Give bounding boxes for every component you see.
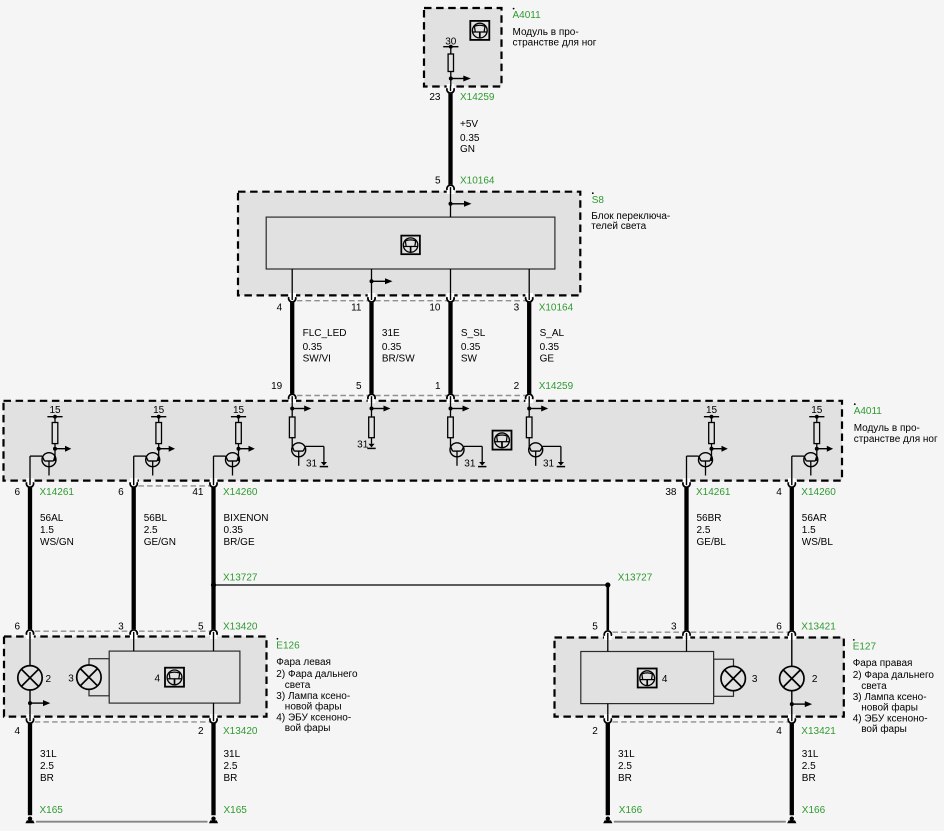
svg-text:15: 15 (706, 405, 718, 416)
svg-text:2) Фара дальнего: 2) Фара дальнего (276, 669, 358, 680)
svg-text:0.35: 0.35 (303, 342, 323, 353)
svg-text:GE/GN: GE/GN (144, 537, 176, 548)
svg-text:15: 15 (49, 405, 61, 416)
svg-text:3) Лампа ксено-: 3) Лампа ксено- (276, 691, 350, 702)
svg-text:X14260: X14260 (801, 487, 836, 498)
svg-text:Блок переключа-: Блок переключа- (591, 211, 670, 222)
svg-text:странстве для ног: странстве для ног (854, 434, 938, 445)
svg-text:0.35: 0.35 (224, 525, 244, 536)
svg-text:31L: 31L (618, 749, 635, 760)
svg-text:S_SL: S_SL (461, 328, 486, 339)
svg-text:+5V: +5V (460, 119, 478, 130)
svg-text:X10164: X10164 (460, 176, 495, 187)
svg-text:6: 6 (118, 487, 124, 498)
svg-text:10: 10 (429, 303, 441, 314)
svg-text:5: 5 (356, 381, 362, 392)
svg-text:E127: E127 (853, 642, 877, 653)
svg-text:4: 4 (154, 673, 160, 684)
svg-text:4: 4 (277, 303, 283, 314)
svg-text:5: 5 (198, 622, 204, 633)
svg-text:E126: E126 (276, 640, 300, 651)
svg-text:56AR: 56AR (802, 513, 827, 524)
svg-text:31E: 31E (382, 328, 400, 339)
svg-text:6: 6 (14, 487, 20, 498)
svg-text:2.5: 2.5 (40, 761, 54, 772)
svg-text:X14260: X14260 (223, 487, 258, 498)
svg-text:GN: GN (460, 144, 475, 155)
svg-text:0.35: 0.35 (460, 133, 480, 144)
svg-text:56AL: 56AL (40, 513, 64, 524)
svg-text:56BR: 56BR (697, 513, 722, 524)
svg-text:3: 3 (752, 674, 758, 685)
svg-text:2: 2 (198, 726, 204, 737)
svg-text:0.35: 0.35 (540, 342, 560, 353)
svg-text:1.5: 1.5 (40, 525, 54, 536)
svg-text:0.35: 0.35 (382, 342, 402, 353)
svg-text:A4011: A4011 (854, 406, 883, 417)
svg-text:вой фары: вой фары (861, 723, 907, 735)
svg-text:0.35: 0.35 (461, 342, 481, 353)
svg-text:X13727: X13727 (618, 573, 653, 584)
svg-text:2: 2 (592, 726, 598, 737)
svg-text:X165: X165 (224, 805, 248, 816)
svg-text:A4011: A4011 (513, 10, 542, 21)
svg-text:странстве для ног: странстве для ног (513, 37, 597, 48)
svg-text:X13420: X13420 (223, 622, 258, 633)
svg-text:4) ЭБУ ксеноно-: 4) ЭБУ ксеноно- (276, 712, 351, 723)
svg-text:31: 31 (357, 440, 369, 451)
svg-text:WS/BL: WS/BL (802, 537, 834, 548)
svg-text:2.5: 2.5 (144, 525, 158, 536)
svg-text:31: 31 (543, 459, 555, 470)
svg-text:5: 5 (435, 176, 441, 187)
svg-text:4: 4 (776, 726, 782, 737)
svg-text:1.5: 1.5 (802, 525, 816, 536)
svg-text:6: 6 (776, 622, 782, 633)
svg-text:2.5: 2.5 (224, 761, 238, 772)
svg-text:4) ЭБУ ксеноно-: 4) ЭБУ ксеноно- (853, 713, 928, 724)
svg-text:X13727: X13727 (223, 573, 258, 584)
svg-text:телей света: телей света (591, 221, 646, 232)
svg-text:23: 23 (429, 92, 441, 103)
svg-text:WS/GN: WS/GN (40, 537, 74, 548)
svg-text:X14261: X14261 (696, 487, 731, 498)
svg-text:3: 3 (118, 622, 124, 633)
svg-text:GE/BL: GE/BL (697, 537, 727, 548)
svg-text:2: 2 (46, 674, 52, 685)
svg-text:X13420: X13420 (223, 726, 258, 737)
svg-text:BIXENON: BIXENON (224, 513, 269, 524)
svg-text:38: 38 (665, 487, 677, 498)
svg-text:X10164: X10164 (539, 303, 574, 314)
svg-text:X166: X166 (802, 805, 826, 816)
svg-text:света: света (861, 681, 887, 692)
svg-text:5: 5 (592, 622, 598, 633)
svg-text:2.5: 2.5 (697, 525, 711, 536)
svg-text:BR: BR (618, 773, 632, 784)
svg-text:2: 2 (514, 381, 520, 392)
svg-text:вой фары: вой фары (285, 722, 331, 734)
svg-text:15: 15 (153, 405, 165, 416)
svg-text:Фара левая: Фара левая (276, 657, 331, 668)
svg-text:S8: S8 (592, 195, 605, 206)
svg-text:X13421: X13421 (801, 726, 836, 737)
svg-text:56BL: 56BL (144, 513, 168, 524)
svg-text:31: 31 (306, 459, 318, 470)
svg-text:X13421: X13421 (801, 622, 836, 633)
svg-text:BR/GE: BR/GE (224, 537, 255, 548)
svg-text:31L: 31L (802, 749, 819, 760)
svg-text:4: 4 (662, 674, 668, 685)
svg-text:X165: X165 (40, 805, 64, 816)
svg-text:S_AL: S_AL (540, 328, 565, 339)
svg-text:BR: BR (40, 773, 54, 784)
svg-text:19: 19 (271, 381, 283, 392)
svg-text:2.5: 2.5 (802, 761, 816, 772)
svg-text:SW/VI: SW/VI (303, 354, 331, 365)
svg-text:3: 3 (671, 622, 677, 633)
svg-text:X14259: X14259 (460, 92, 495, 103)
svg-text:света: света (285, 680, 311, 691)
svg-text:X14259: X14259 (539, 381, 574, 392)
svg-text:41: 41 (192, 487, 204, 498)
svg-text:2: 2 (812, 674, 818, 685)
svg-text:15: 15 (233, 405, 245, 416)
svg-text:новой фары: новой фары (861, 702, 918, 714)
svg-text:FLC_LED: FLC_LED (303, 328, 347, 339)
svg-text:3) Лампа ксено-: 3) Лампа ксено- (853, 692, 927, 703)
svg-text:11: 11 (351, 303, 362, 314)
svg-text:31L: 31L (40, 749, 57, 760)
svg-text:6: 6 (14, 622, 20, 633)
svg-text:BR/SW: BR/SW (382, 354, 415, 365)
svg-text:31: 31 (464, 459, 476, 470)
svg-text:BR: BR (802, 773, 816, 784)
svg-text:2.5: 2.5 (618, 761, 632, 772)
svg-text:31L: 31L (224, 749, 241, 760)
svg-text:30: 30 (445, 37, 457, 48)
svg-text:BR: BR (224, 773, 238, 784)
svg-text:4: 4 (776, 487, 782, 498)
svg-text:Фара правая: Фара правая (853, 658, 913, 669)
svg-text:4: 4 (14, 726, 20, 737)
svg-text:новой фары: новой фары (285, 701, 342, 713)
svg-text:1: 1 (435, 381, 441, 392)
svg-text:3: 3 (68, 674, 74, 685)
svg-text:3: 3 (514, 303, 520, 314)
svg-text:X14261: X14261 (40, 487, 75, 498)
svg-text:SW: SW (461, 354, 478, 365)
svg-text:Модуль в про-: Модуль в про- (854, 423, 920, 434)
svg-text:X166: X166 (619, 805, 643, 816)
svg-text:GE: GE (540, 354, 555, 365)
svg-text:15: 15 (811, 405, 823, 416)
svg-text:2) Фара дальнего: 2) Фара дальнего (853, 670, 935, 681)
